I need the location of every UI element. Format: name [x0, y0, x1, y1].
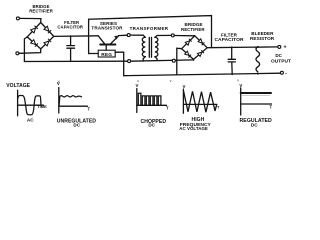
svg-text:V: V — [239, 83, 242, 88]
svg-text:RESISTOR: RESISTOR — [250, 36, 275, 41]
svg-text:RECTIFIER: RECTIFIER — [181, 27, 205, 32]
svg-text:DC: DC — [148, 123, 155, 128]
svg-text:+: + — [284, 45, 287, 51]
svg-text:CAPACITOR: CAPACITOR — [214, 37, 243, 43]
svg-text:V: V — [136, 83, 139, 88]
svg-text:DC: DC — [275, 53, 282, 58]
svg-text:RECTIFIER: RECTIFIER — [29, 9, 53, 14]
svg-text:REG: REG — [101, 52, 112, 58]
svg-text:DC: DC — [251, 123, 258, 128]
svg-text:T: T — [87, 107, 90, 112]
svg-text:DC: DC — [73, 123, 80, 128]
svg-text:-: - — [285, 71, 287, 77]
svg-text:AC: AC — [27, 117, 34, 122]
svg-text:TIME: TIME — [37, 104, 47, 109]
svg-text:FILTER: FILTER — [221, 33, 238, 38]
svg-text:AC VOLTAGE: AC VOLTAGE — [179, 126, 208, 131]
svg-text:VOLTAGE: VOLTAGE — [6, 83, 30, 89]
svg-text:V: V — [183, 84, 186, 89]
svg-text:T: T — [269, 104, 272, 109]
svg-text:OUTPUT: OUTPUT — [271, 58, 291, 64]
svg-text:T: T — [166, 105, 169, 110]
svg-text:TRANSISTOR: TRANSISTOR — [91, 26, 123, 31]
svg-text:CAPACITOR: CAPACITOR — [57, 24, 83, 29]
svg-text:BRIDGE: BRIDGE — [185, 22, 203, 27]
svg-text:TRANSFORMER: TRANSFORMER — [130, 26, 169, 31]
